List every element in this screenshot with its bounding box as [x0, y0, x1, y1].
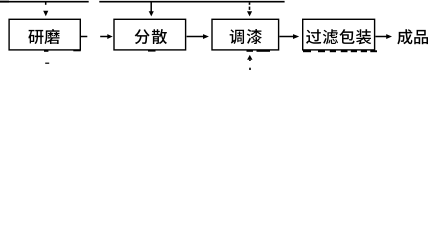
wire top feed line segment A: [0, 1, 89, 3]
arrowhead right into box 3: [203, 34, 209, 39]
wire top feed line segment B: [99, 1, 284, 3]
box 3 bottom bump 1: [247, 50, 254, 52]
arrowhead right to product text: [386, 34, 392, 39]
wire stem below up arrowhead: [249, 60, 251, 61]
arrowhead right into box 2: [107, 34, 112, 39]
text label 过滤包装: [306, 29, 371, 44]
arrowhead down into box 2: [149, 11, 154, 16]
wire dash below box 1: [45, 63, 49, 64]
wire stub out of box 1: [81, 36, 87, 38]
text label 调漆: [230, 29, 262, 44]
box 4 bottom dash 5: [351, 50, 357, 52]
box 4 bottom dash 3: [330, 50, 336, 52]
text label 成品: [397, 29, 428, 44]
process box 3 调漆 outline: [212, 19, 279, 50]
text label 研磨: [28, 29, 59, 44]
box 1 bottom right corner thickening: [73, 50, 80, 51]
wire drop tick into box 1: [45, 2, 47, 5]
arrowhead down into box 3: [247, 11, 252, 16]
process box 1 研磨 outline: [9, 19, 80, 50]
wire drop tick into box 3: [249, 3, 251, 5]
wire arrow line into box 2: [100, 36, 108, 38]
wire drop dash into box 3: [249, 7, 251, 10]
wire dash below box 3 (bottom edge of image): [249, 68, 251, 70]
arrowhead down into box 1: [43, 11, 48, 17]
box 4 bottom dash 6: [361, 50, 367, 52]
arrowhead right into box 4: [293, 34, 299, 39]
arrowhead up into box 3 bottom: [247, 55, 252, 60]
box 2 bottom tick: [148, 50, 156, 51]
process box 2 分散 outline: [114, 19, 186, 50]
box 4 bottom dash 4: [341, 50, 348, 52]
wire arrow line box 2 to box 3: [187, 36, 205, 38]
box 4 bottom dash 2: [318, 50, 325, 52]
process box 4 过滤包装 outline: [303, 19, 375, 50]
box 4 bottom dash 7: [370, 50, 377, 52]
box 4 bottom dash 1: [303, 50, 311, 52]
box 1 bottom tick: [44, 50, 48, 52]
box 3 bottom bump 2: [257, 50, 271, 52]
wire arrow line box 3 to box 4: [279, 36, 294, 38]
wire arrow line box 4 to product: [375, 36, 387, 38]
text label 分散: [135, 29, 167, 44]
wire drop line into box 2: [150, 2, 152, 12]
wire top feed line left end thickening: [0, 1, 9, 3]
